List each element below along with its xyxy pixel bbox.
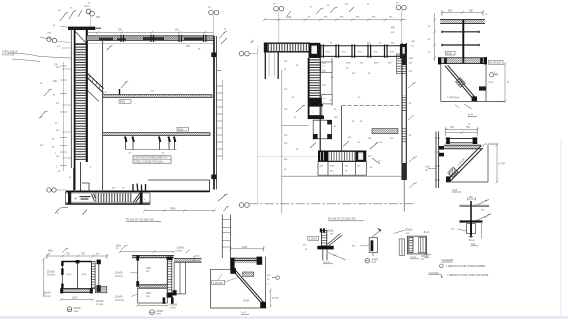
hanger rods below beam2 <box>126 137 175 150</box>
svg-text:(L=xxxx): (L=xxxx) <box>115 300 124 302</box>
open floor annotation texts <box>346 63 394 144</box>
bottom stair left block slits <box>321 152 324 161</box>
corridor annotation texts <box>323 63 339 128</box>
detailB2 right strip blobs <box>167 257 173 298</box>
column crossing tick <box>217 70 221 72</box>
corner block top-left of shaft <box>309 43 321 58</box>
detailS5 box <box>369 238 377 253</box>
plan title PLAN AT 15,500 <box>126 217 161 221</box>
detailL2 top dim line <box>229 246 265 251</box>
detail2 gusset blob <box>446 176 451 182</box>
detailL2 right side labels <box>267 275 271 286</box>
detail2 box <box>446 145 488 182</box>
bottom stair run bottom edge <box>66 193 151 204</box>
detailL2 beam hatch <box>232 259 261 264</box>
landing corner lines <box>82 183 89 191</box>
bottom stair left block <box>318 151 328 162</box>
detail1 diagonal hatch patch <box>455 78 465 88</box>
stair head specks <box>112 187 125 189</box>
svg-text:1-150x9: 1-150x9 <box>309 238 318 240</box>
detailB2 top left flag <box>121 245 128 250</box>
detailL2 diagonal brace <box>233 270 266 306</box>
svg-text:150x90: 150x90 <box>326 230 334 232</box>
detailS5 flag leader <box>373 229 382 237</box>
beam-wall corner block <box>400 44 407 59</box>
svg-text:LEGEND:: LEGEND: <box>442 258 455 262</box>
mid plan top dim texts <box>286 16 393 19</box>
grid bubbles left pair <box>47 37 70 43</box>
detailB2 top dim <box>119 250 176 253</box>
detail3 beam top flange lines <box>460 205 490 207</box>
detailB1 left edge blobs <box>61 261 63 289</box>
stair shaft stub walls below top stair <box>265 52 278 79</box>
detailB1 top leader flag <box>62 248 69 253</box>
top-left stair left block <box>264 43 268 53</box>
svg-text:7800: 7800 <box>170 208 176 211</box>
right wall leader flags <box>408 83 417 188</box>
detailL2 hanger top flag <box>224 206 230 211</box>
bottom stair newel marks <box>92 194 96 201</box>
detailB1 right outer line <box>98 260 100 293</box>
detailS4 diagonal <box>327 233 342 247</box>
faint extension line <box>257 156 318 158</box>
detail3 bottom marks <box>469 235 473 237</box>
svg-text:150x90: 150x90 <box>170 304 178 306</box>
note box 2-line <box>133 156 171 164</box>
svg-text:BOM: BOM <box>244 301 249 303</box>
left margin level ticks <box>60 66 67 166</box>
left margin level marks <box>40 46 61 173</box>
bottom stair treads <box>96 193 133 202</box>
right wall dark block 1 <box>402 59 407 66</box>
detailB1 bottom bar hatched <box>60 288 93 293</box>
detailB2 bottom-right marks <box>163 297 174 303</box>
right wall hatched segment 1 <box>397 54 407 74</box>
detailB1 marker bubble <box>67 307 81 313</box>
column bolt blob lower <box>211 175 216 180</box>
svg-text:BCB: BCB <box>178 128 183 131</box>
detailS6 main box <box>407 236 426 254</box>
svg-text:2-TYP: 2-TYP <box>498 164 505 166</box>
svg-text:STEEL ANGLE: STEEL ANGLE <box>2 50 18 53</box>
corner block white slit <box>311 46 317 54</box>
detailS6 right ladder <box>418 238 425 253</box>
mid beam 2 label box <box>177 127 189 131</box>
svg-text:S-1.2: S-1.2 <box>410 256 416 259</box>
right wall column of left plan <box>214 36 223 190</box>
svg-text:PLAN AT 22,000 SK.: PLAN AT 22,000 SK. <box>328 216 357 220</box>
detailS4 leader diag <box>328 253 346 261</box>
detail2 top dims <box>444 127 479 136</box>
detail3 diagonal leaders <box>475 200 492 222</box>
detailS5 left leader <box>360 245 370 246</box>
detail2 right dim vertical <box>496 144 499 184</box>
mid plan faint grid line left <box>256 48 258 204</box>
detailB2 right tall box <box>174 262 185 294</box>
detailS6 top texts <box>405 230 431 235</box>
right wall thin continuation <box>403 180 405 212</box>
detailS4 top blobs <box>320 228 325 232</box>
shaft left flag <box>296 105 306 112</box>
plan title PLAN AT 22,000 <box>328 216 364 220</box>
detailL2 left leader <box>218 274 238 282</box>
detailB1 below-right note <box>96 301 104 306</box>
left bubble vicinity specks <box>251 42 260 53</box>
svg-text:FIXING 150: FIXING 150 <box>2 55 15 57</box>
detail1 platform hatched <box>438 58 487 64</box>
detailL2 hanger twin lines <box>222 215 230 259</box>
second flight box <box>313 120 331 139</box>
svg-text:(L=xxx): (L=xxx) <box>115 276 123 278</box>
detailB1 left notes <box>43 271 55 297</box>
svg-text:150x90: 150x90 <box>43 293 51 295</box>
top beam dimension line <box>87 31 213 34</box>
mid beam 1 <box>103 95 212 98</box>
detailL2 brace hatch label <box>243 272 254 276</box>
svg-text:L=xxxx: L=xxxx <box>96 304 104 306</box>
detailL2 left label box <box>212 280 225 284</box>
right wall stud ticks <box>217 86 223 156</box>
detailL2 right dim vertical <box>269 289 272 308</box>
above-beam text specks <box>330 43 395 45</box>
mid landing block <box>309 98 323 106</box>
detailB2 top right labels <box>176 248 184 253</box>
detailS6 top leader <box>394 230 404 233</box>
detail1 top chord hatched <box>440 20 485 24</box>
svg-text:150x90: 150x90 <box>115 297 123 299</box>
room label box upper <box>321 62 332 73</box>
mid plan bottom-left bubbles pair <box>239 203 249 208</box>
room label box lower <box>322 95 333 104</box>
svg-text:150x: 150x <box>116 245 122 247</box>
detailL2 hanger ticks <box>222 220 230 247</box>
long top beam double lines <box>320 46 407 57</box>
detailS4 vertical hatched post <box>321 231 326 249</box>
detail2 diagonal brace <box>447 146 482 182</box>
detail3 column vertical <box>470 201 472 238</box>
right wall of mid plan line B <box>405 43 407 180</box>
svg-text:S-8: S-8 <box>471 242 476 246</box>
second flight corner blobs <box>313 120 332 139</box>
beam1 hanger tick <box>119 89 121 95</box>
detail3 top small dim <box>468 197 476 200</box>
detail1 platform end blocks <box>438 57 487 64</box>
detailB1 right hatched box <box>95 287 107 293</box>
svg-text:150x90: 150x90 <box>96 301 104 303</box>
detailS4 below verticals <box>323 249 327 260</box>
detailS6 narrow box left <box>399 239 405 255</box>
detail2 leader L-label <box>482 144 487 147</box>
svg-text:S-8: S-8 <box>453 188 458 192</box>
stair shaft wall left edge <box>74 29 76 190</box>
left margin level texts <box>52 64 59 168</box>
right wall dark block bottom <box>402 163 407 180</box>
detailS4 dark bar <box>317 246 333 250</box>
mid plan left bubbles pair <box>239 51 258 56</box>
detail1 diagonal brace <box>445 65 477 100</box>
dashed clearance line <box>342 105 402 107</box>
right wall hatched segment 3 <box>402 127 406 143</box>
mid plan top bubbles pair right <box>396 5 406 43</box>
left margin flag leaders <box>39 89 52 119</box>
sheet border bottom <box>0 316 568 318</box>
detailL2 box <box>211 257 267 309</box>
detail1 column <box>462 20 464 64</box>
corner block slit <box>402 47 405 54</box>
detail1 leader ticks below <box>455 104 472 109</box>
mid beam 2 <box>103 133 210 136</box>
detailB1 top dim texts <box>48 251 100 256</box>
right wall of mid plan line A <box>401 43 403 180</box>
detailB1 bottom dim <box>60 298 95 301</box>
mid beam 1 label box <box>119 100 131 104</box>
svg-text:S-1.2: S-1.2 <box>323 260 330 264</box>
detailB2 right tall box blobs <box>173 290 177 295</box>
mid landing lower dark bar <box>309 116 324 120</box>
detailB1 left dim vertical <box>42 258 45 297</box>
svg-text:L-2: L-2 <box>242 310 247 314</box>
detailB2 main box <box>138 258 168 285</box>
detailB1 right blobs <box>97 260 101 292</box>
top-left stair run edges <box>264 43 310 52</box>
detail1 right dim vertical <box>504 62 507 103</box>
stair shaft wall right edge <box>86 29 88 162</box>
detail1 box below <box>441 64 505 101</box>
svg-text:150x90: 150x90 <box>421 256 429 258</box>
legend line1 symbol <box>440 264 444 268</box>
detailB2 top right flag <box>185 250 190 254</box>
detailB2 left notes <box>115 273 124 302</box>
right wall outside labels <box>391 28 416 137</box>
bottom stair break diagonals <box>133 193 143 203</box>
svg-text:STAIR: STAIR <box>371 258 378 261</box>
svg-text:1650: 1650 <box>242 247 248 249</box>
long top beam joint I-ticks <box>321 44 401 57</box>
svg-text:150x90: 150x90 <box>176 248 184 250</box>
detailL2 corner blob <box>230 258 234 269</box>
bolt heads below beam2 <box>125 137 175 143</box>
svg-text:900x: 900x <box>48 251 54 253</box>
plan bottom dimension line <box>143 209 216 212</box>
detailL2 hanger specks <box>226 230 233 240</box>
svg-text:UP: UP <box>74 199 78 201</box>
detail2 beam with end posts <box>446 137 478 144</box>
svg-text:150x90: 150x90 <box>115 273 123 275</box>
left margin tick leaders <box>62 48 71 158</box>
leader flags top-left <box>60 10 82 21</box>
grid bubble left bottom pair <box>47 188 66 192</box>
detail1 ICB dark tag <box>479 86 486 90</box>
svg-text:BM: BM <box>97 17 101 19</box>
detailB2 bottom-right texts <box>170 304 178 309</box>
column bolt blob upper <box>211 53 216 58</box>
svg-text:BCB: BCB <box>120 101 125 104</box>
detail3 right vertical <box>481 222 483 239</box>
interior floor edge upper <box>282 125 309 127</box>
detail2 column ticks <box>435 138 441 180</box>
svg-text:L-90: L-90 <box>425 167 430 169</box>
svg-text:L=xxx: L=xxx <box>176 251 183 253</box>
top beam double line <box>87 36 214 41</box>
svg-text:PLAN AT 15,500 SK.: PLAN AT 15,500 SK. <box>126 217 155 221</box>
detail2 left column twin verticals <box>436 132 439 189</box>
detail1 right labels <box>488 60 503 64</box>
under-beam specks right <box>186 46 201 50</box>
detail1 left dim vertical <box>433 13 436 61</box>
interior grid line down to centreline <box>281 70 283 214</box>
detailB2 marker bubble <box>150 310 164 316</box>
mid plan top dimension line <box>263 18 407 21</box>
svg-text:B-1xx: B-1xx <box>469 240 476 242</box>
bottom stair right block slit <box>358 152 363 159</box>
detailS4 label box left <box>308 236 319 240</box>
detailS5 dark bar inside <box>371 240 374 251</box>
detailS6 left hatch strip <box>409 238 413 253</box>
mid shaft stair treads <box>309 59 319 98</box>
svg-text:L=xxx: L=xxx <box>170 307 177 309</box>
detail1 label box <box>446 51 456 55</box>
svg-text:150x90: 150x90 <box>405 230 413 232</box>
detail2 left leader note <box>428 168 436 170</box>
detailL2 brace end blobs <box>230 268 266 308</box>
detail1 top dimension line <box>441 10 485 16</box>
detail1 beam level 3 <box>442 44 479 46</box>
bottom stair left end block <box>68 191 71 204</box>
bottom stair right newel <box>140 192 143 203</box>
svg-text:BCB: BCB <box>447 52 452 55</box>
bottom stair run top edge <box>66 192 151 194</box>
svg-text:S-8: S-8 <box>468 112 473 116</box>
detailS5 tick below <box>372 253 374 256</box>
detail1 beam level 2 <box>442 31 479 33</box>
svg-text:(L=xxx): (L=xxx) <box>47 275 55 277</box>
svg-text:S-XXXXX: S-XXXXX <box>429 272 440 275</box>
svg-text:150x90: 150x90 <box>47 271 55 273</box>
left shaft to stair connector lines <box>74 162 81 191</box>
detailB2 left edge posts <box>136 256 139 287</box>
detailB2 top beam right step <box>174 258 202 262</box>
detailB2 top beam hatched <box>132 255 174 257</box>
legend line2 symbol <box>429 275 443 278</box>
svg-text:150x: 150x <box>146 268 152 270</box>
svg-text:= DENOTE STAIR CASE TOP LEVEL: = DENOTE STAIR CASE TOP LEVEL <box>447 274 490 277</box>
understair cell texts <box>320 165 362 172</box>
hanger rail below beam2 <box>126 149 177 151</box>
shaft stub inner thin lines <box>269 52 275 76</box>
detailB2 bottom dim <box>136 304 168 307</box>
detailL2 right end post <box>257 257 263 265</box>
interior annotation specks upper <box>107 49 109 51</box>
left margin leaders <box>8 53 71 62</box>
svg-text:BL=20,500: BL=20,500 <box>489 62 501 65</box>
detailL2 title <box>241 310 249 314</box>
left margin extension line <box>63 62 65 171</box>
detail2 title S-8 <box>452 188 462 192</box>
svg-text:xxxx: xxxx <box>156 313 162 316</box>
flag leaders above mid beam <box>287 7 354 16</box>
detailL2 right circled mark <box>272 276 279 279</box>
S6 side level marks <box>425 255 432 258</box>
stair shaft wall cap <box>68 27 95 30</box>
stair shaft outer line <box>70 30 72 169</box>
lower flight diagonal <box>87 90 99 102</box>
svg-text:(L=xxx): (L=xxx) <box>43 296 51 298</box>
svg-text:1500: 1500 <box>72 298 78 300</box>
long centreline at 22000 level <box>249 203 415 205</box>
detail1 brace foot blob <box>472 96 477 101</box>
shaft left column texts <box>284 61 299 171</box>
svg-text:= DENOTE STAIR CASE NUMBER: = DENOTE STAIR CASE NUMBER <box>446 265 486 268</box>
detailS6 bottom underline <box>410 258 419 260</box>
detailB1 right hatch strip <box>92 262 96 289</box>
below-stair arrow marks <box>55 194 228 215</box>
detail2 bolt blobs <box>439 146 444 156</box>
cap leader note <box>40 26 69 39</box>
detail3 bottom plate dark bar <box>460 220 483 222</box>
understair box <box>318 161 366 175</box>
texts right of stair <box>368 156 381 169</box>
detailS6 bottom texts <box>410 256 429 261</box>
interior floor edge lower <box>282 175 402 177</box>
svg-text:AT-X: AT-X <box>82 273 87 276</box>
bottom stair outer left line <box>65 191 67 204</box>
svg-text:150x: 150x <box>146 293 152 295</box>
svg-text:STEEL CONNECTION (SK): STEEL CONNECTION (SK) <box>134 161 163 163</box>
beam end leader flags <box>219 31 227 44</box>
svg-text:xxxx: xxxx <box>74 310 80 313</box>
mid shaft vertical stair edges <box>309 58 321 151</box>
interior annotation specks mid <box>105 90 155 94</box>
right wall hatched segment 2 <box>402 95 406 111</box>
corridor right wall line <box>102 41 104 191</box>
bottom stair landing smudges <box>80 197 91 199</box>
detailB2 mid bar hatched <box>138 285 168 288</box>
detailB2 right hatch strip <box>167 258 172 298</box>
grid bubbles A/B top of stair wall <box>86 9 94 27</box>
detailS4 side texts <box>303 245 337 257</box>
beam1 hanger flag <box>121 81 128 88</box>
legend heading <box>442 258 455 262</box>
corridor right line <box>341 106 343 151</box>
grid bubbles top-right pair <box>209 10 219 36</box>
stair treads (vertical ladder) <box>75 44 86 160</box>
svg-text:1600: 1600 <box>286 17 292 19</box>
detail1 circled symbol <box>490 73 499 77</box>
detailB1 main box <box>62 262 91 289</box>
detailS5 marker bubble <box>365 258 378 264</box>
svg-text:2-TYP: 2-TYP <box>272 298 279 300</box>
detail2 platform hatched <box>444 145 481 149</box>
detail3 title <box>471 242 479 246</box>
svg-text:1-150x90: 1-150x90 <box>213 283 223 285</box>
detailB1 top dim line <box>46 254 109 259</box>
bottom stair right block <box>356 151 367 162</box>
hatched keyplan label box <box>372 129 398 134</box>
stair flight diagonal to landing <box>87 73 104 93</box>
detail1 title S-8 <box>468 112 478 116</box>
detailL2 beam double line <box>231 258 263 260</box>
detailB2 left leaders <box>130 273 138 297</box>
long beam cell texts <box>326 50 394 53</box>
sheet border right <box>560 138 562 317</box>
detailS4 top texts <box>326 230 334 235</box>
detailB2 lower box <box>138 288 168 303</box>
mid plan top bubbles pair left <box>274 6 284 43</box>
top beam joint ticks <box>121 35 206 42</box>
mid landing open box <box>309 106 322 115</box>
svg-text:AT-X: AT-X <box>67 273 72 276</box>
top-left stair treads <box>268 44 309 51</box>
